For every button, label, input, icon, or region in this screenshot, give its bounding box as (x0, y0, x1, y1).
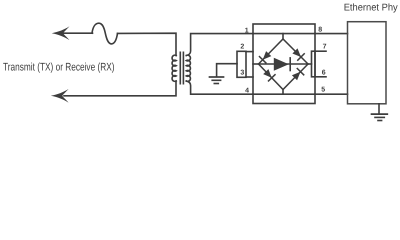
bridge module box (253, 24, 315, 104)
stub pin 2 (246, 51, 253, 53)
ground left (termination) wire (217, 64, 237, 76)
ground left bar 3 (214, 83, 218, 85)
ground phy stem (378, 104, 380, 114)
svg-text:3: 3 (240, 70, 244, 77)
Ethernet Phy box (348, 22, 387, 104)
ground phy bar 2 (375, 116, 384, 118)
arrowhead top-left (52, 26, 70, 40)
transformer core (179, 52, 181, 83)
svg-text:4: 4 (245, 88, 249, 95)
stub pin 6 outside (315, 76, 326, 78)
stub bottom vertex (282, 90, 284, 95)
svg-text:1: 1 (245, 28, 249, 35)
diode D2 lower-left (cathode to bottom vertex) (263, 69, 272, 78)
wire pair bottom-left horizontal (64, 81, 176, 96)
internal rail pin4-pin5 (253, 93, 315, 95)
svg-text:6: 6 (322, 70, 326, 77)
termination network box across pins 2-3 (237, 51, 246, 77)
ground left bar 2 (212, 79, 220, 81)
stub pin 3 (246, 76, 253, 78)
internal rail pin1-pin8 (253, 33, 315, 35)
transformer primary winding (5 loops) (172, 55, 176, 81)
transformer secondary winding (5 loops) (186, 55, 190, 81)
svg-text:5: 5 (321, 86, 325, 93)
center rail left-right vertex (259, 63, 309, 65)
stub left vertex to box edge (253, 63, 259, 65)
stub right vertex to sense box (308, 63, 312, 65)
svg-text:7: 7 (323, 44, 327, 51)
arrowhead bottom-left (51, 89, 69, 103)
svg-text:8: 8 (318, 27, 322, 34)
diode D4 lower-right (cathode to right vertex) (292, 72, 301, 81)
wire secondary top to bridge pin 1 (186, 34, 253, 56)
svg-text:Ethernet Phy: Ethernet Phy (344, 3, 398, 14)
stub top vertex (282, 34, 284, 39)
stub pin 7 outside (315, 50, 326, 52)
diode D5 center (points right) (274, 58, 289, 71)
sine squiggle in top wire (92, 23, 118, 44)
svg-text:Transmit (TX) or Receive (RX): Transmit (TX) or Receive (RX) (3, 61, 115, 73)
diode D3 upper-right (cathode to right vertex) (292, 48, 301, 57)
svg-text:2: 2 (240, 44, 244, 51)
wire secondary bottom to bridge pin 4 (186, 81, 253, 94)
diode bridge diamond (259, 39, 309, 90)
sense box on right edge pins 7-6 (312, 51, 316, 77)
diode D1 upper-left (cathode to left vertex) (263, 51, 272, 60)
ground phy bar 1 (372, 113, 388, 115)
wire pair top-left horizontal (63, 32, 93, 34)
wire pin 5 to phy (315, 93, 348, 95)
wire pin 8 to phy (315, 33, 348, 35)
wire top squiggle to transformer primary (118, 33, 177, 55)
ground phy bar 3 (378, 120, 382, 122)
ground left bar 1 (210, 76, 224, 78)
